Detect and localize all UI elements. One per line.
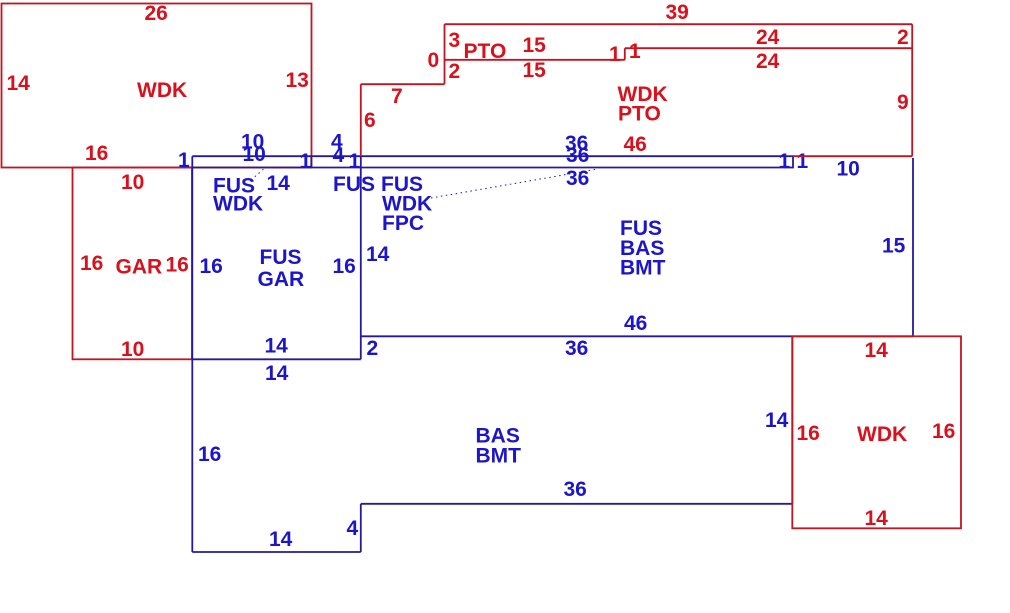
- svg-text:1: 1: [779, 150, 791, 173]
- stair horizontal 7: [361, 83, 445, 85]
- svg-text:16: 16: [166, 254, 189, 277]
- stair vertical 6: [360, 84, 362, 156]
- svg-text:WDK: WDK: [137, 79, 187, 102]
- svg-text:10: 10: [837, 158, 860, 181]
- blue FUS GAR bottom: [192, 358, 360, 360]
- blue BAS BMT right vertical: [791, 336, 793, 504]
- blue tick x311: [310, 156, 312, 167]
- svg-text:16: 16: [85, 142, 108, 165]
- svg-text:14: 14: [765, 409, 789, 432]
- svg-text:36: 36: [566, 167, 589, 190]
- svg-text:PTO: PTO: [618, 103, 661, 126]
- WDK PTO right edge: [911, 24, 913, 156]
- dotted leader 2: [431, 169, 598, 198]
- svg-text:1: 1: [797, 150, 809, 173]
- svg-text:36: 36: [564, 478, 587, 501]
- svg-text:4: 4: [333, 144, 345, 167]
- blue BAS BMT bottom: [192, 551, 360, 553]
- svg-text:10: 10: [243, 143, 266, 166]
- svg-text:2: 2: [897, 26, 909, 49]
- svg-text:16: 16: [797, 422, 820, 445]
- svg-text:FPC: FPC: [382, 212, 424, 235]
- GAR rectangle: [73, 168, 193, 360]
- svg-text:1: 1: [609, 43, 621, 66]
- blue BAS BMT step bottom: [361, 503, 793, 505]
- svg-text:4: 4: [347, 517, 359, 540]
- svg-text:FUS: FUS: [260, 246, 302, 269]
- blue FUS BAS BMT bottom: [361, 335, 913, 337]
- svg-text:14: 14: [865, 339, 889, 362]
- svg-text:10: 10: [121, 338, 144, 361]
- blue strip bottom line: [192, 167, 785, 169]
- svg-text:13: 13: [286, 69, 309, 92]
- svg-text:PTO: PTO: [464, 40, 507, 63]
- svg-text:16: 16: [932, 420, 955, 443]
- WDK rectangle bottom-right: [792, 336, 961, 528]
- svg-text:WDK: WDK: [213, 193, 263, 216]
- svg-text:14: 14: [267, 172, 291, 195]
- svg-text:36: 36: [566, 144, 589, 167]
- step vertical 1: [624, 48, 626, 60]
- blue left vertical: [191, 156, 193, 552]
- svg-text:26: 26: [145, 2, 168, 25]
- svg-text:BMT: BMT: [620, 257, 666, 280]
- svg-text:15: 15: [523, 59, 547, 82]
- svg-text:15: 15: [523, 34, 547, 57]
- svg-text:10: 10: [121, 171, 144, 194]
- blue vertical x361 lower: [360, 504, 362, 552]
- svg-text:15: 15: [882, 235, 906, 258]
- svg-text:1: 1: [349, 150, 361, 173]
- svg-text:9: 9: [897, 91, 909, 114]
- svg-text:36: 36: [565, 337, 588, 360]
- svg-text:46: 46: [624, 312, 647, 335]
- WDK deck rectangle top-left: [2, 4, 312, 168]
- svg-text:16: 16: [200, 255, 223, 278]
- svg-text:2: 2: [367, 337, 379, 360]
- svg-text:24: 24: [756, 26, 780, 49]
- blue strip top line: [192, 155, 785, 157]
- svg-text:BMT: BMT: [476, 445, 522, 468]
- dotted leader 1: [251, 167, 266, 180]
- svg-text:GAR: GAR: [116, 256, 163, 279]
- blue layer: [178, 131, 913, 553]
- red group B: [361, 1, 961, 530]
- svg-text:1: 1: [629, 40, 641, 63]
- left vertical 3-2: [444, 24, 446, 84]
- svg-text:14: 14: [265, 335, 289, 358]
- svg-text:16: 16: [198, 443, 221, 466]
- blue notch box: [785, 156, 793, 167]
- svg-text:3: 3: [449, 29, 461, 52]
- svg-text:24: 24: [756, 50, 780, 73]
- svg-text:39: 39: [666, 1, 689, 24]
- svg-text:46: 46: [624, 133, 647, 156]
- svg-text:14: 14: [265, 362, 289, 385]
- 24 line: [625, 47, 912, 49]
- WDK PTO bottom right segment: [793, 155, 912, 157]
- blue right vertical: [912, 158, 914, 336]
- svg-text:0: 0: [428, 49, 440, 72]
- WDK PTO top edge: [445, 23, 913, 25]
- svg-text:14: 14: [7, 72, 31, 95]
- svg-text:16: 16: [80, 252, 103, 275]
- svg-text:7: 7: [391, 85, 403, 108]
- svg-text:1: 1: [178, 149, 190, 172]
- svg-text:14: 14: [366, 243, 390, 266]
- blue vertical x361 upper: [360, 156, 362, 359]
- svg-text:16: 16: [333, 255, 356, 278]
- svg-text:FUS: FUS: [333, 173, 375, 196]
- svg-text:6: 6: [364, 109, 376, 132]
- svg-text:14: 14: [865, 507, 889, 530]
- svg-text:1: 1: [300, 150, 312, 173]
- svg-text:WDK: WDK: [857, 423, 907, 446]
- red group A: [2, 2, 312, 361]
- svg-text:2: 2: [449, 60, 461, 83]
- svg-text:GAR: GAR: [258, 268, 305, 291]
- PTO bottom 15: [445, 59, 625, 61]
- svg-text:14: 14: [269, 528, 293, 551]
